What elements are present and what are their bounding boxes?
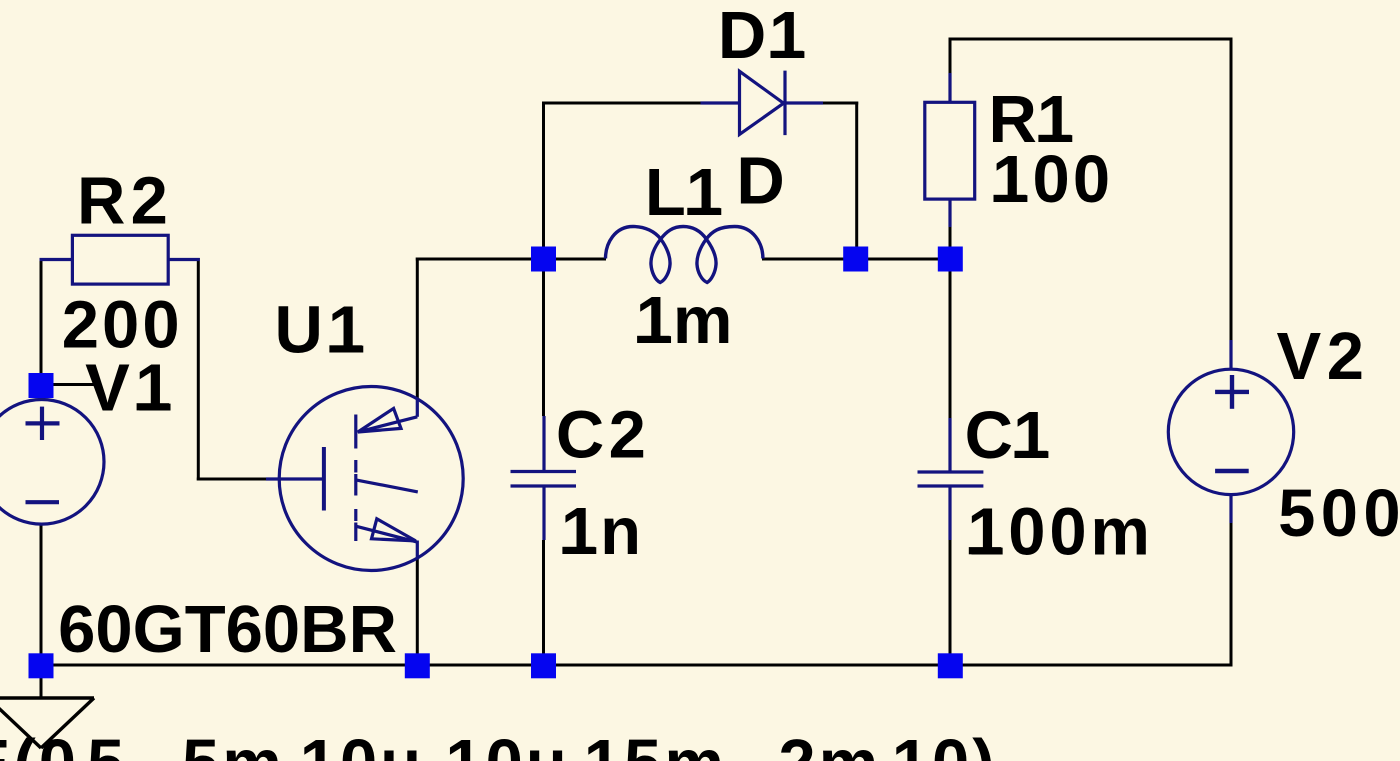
svg-text:C1: C1 (965, 398, 1051, 473)
capacitor C2 (511, 416, 577, 540)
wire C2 node up to D1 row (542, 102, 545, 261)
svg-text:100: 100 (992, 142, 1113, 217)
IGBT U1 (266, 387, 463, 571)
svg-text:500: 500 (1278, 476, 1400, 551)
wire R1 node down to C1 (949, 258, 952, 419)
R1 (994, 195, 1027, 202)
wire bottom rail y=665 (40, 664, 1233, 667)
svg-text:10): 10) (892, 726, 998, 761)
wire stub right of V1 node (41, 383, 96, 386)
node ground rail V1 (29, 653, 54, 678)
D1 (1038, 135, 1071, 142)
diode D1 (701, 71, 824, 136)
ground (0, 698, 94, 748)
voltage source V2 (1168, 340, 1293, 523)
svg-text:1m: 1m (636, 283, 733, 358)
1m (562, 547, 595, 554)
svg-text:5: 5 (87, 726, 127, 761)
1n (969, 547, 1002, 554)
wire R1 bottom to node (949, 227, 952, 261)
svg-text:100m: 100m (967, 494, 1153, 569)
wire L1 right lead to D node (762, 258, 857, 261)
wire collector row to C2 node (416, 258, 544, 261)
svg-text:10u: 10u (300, 726, 424, 761)
resistor R1 (925, 73, 975, 227)
wire D1 cathode to corner (823, 102, 858, 105)
svg-text:D1: D1 (718, 0, 809, 73)
node L1 right / D1 (843, 247, 868, 272)
voltage source V1 (0, 400, 104, 525)
wire right vertical x=1231 down to V2 top (1230, 38, 1233, 371)
svg-text:2m: 2m (778, 726, 881, 761)
100 (637, 336, 670, 343)
svg-text:L1: L1 (645, 155, 723, 230)
L1 (771, 51, 804, 58)
node L1 left / C2 (531, 247, 556, 272)
wire C2 bottom to rail (542, 540, 545, 667)
U1 (687, 208, 720, 215)
svg-text:R2: R2 (77, 164, 173, 239)
svg-text:1n: 1n (561, 494, 643, 569)
svg-text:PULSE(0: PULSE(0 (0, 726, 79, 761)
wire R1 top (949, 38, 952, 75)
svg-text:10u: 10u (445, 726, 569, 761)
svg-text:V2: V2 (1277, 319, 1370, 394)
wire L1 left lead (542, 258, 606, 261)
wire U1 collector up (416, 258, 419, 400)
svg-text:15m: 15m (584, 726, 727, 761)
node R1 / C1 top (938, 247, 963, 272)
svg-text:60GT60BR: 60GT60BR (58, 592, 397, 667)
wire D1 row left (542, 102, 701, 105)
wire U1 emitter down to rail (416, 558, 419, 665)
wire gate horizontal into U1 (197, 478, 266, 481)
capacitor C1 (918, 418, 984, 540)
inductor L1 (606, 227, 763, 283)
svg-text:C2: C2 (556, 397, 650, 472)
wire D1 corner down to node (855, 102, 858, 261)
svg-text:V1: V1 (85, 350, 178, 425)
svg-text:U1: U1 (275, 293, 371, 368)
wire D node to R1 node (855, 258, 951, 261)
V1 (329, 345, 362, 352)
wire gate vertical x=198.3 (197, 258, 200, 481)
svg-text:D: D (736, 144, 784, 219)
wire V2 bottom to bottom rail (1230, 523, 1233, 667)
wire V1 top: junction to circle (40, 258, 43, 400)
wire C1 bottom to rail (949, 540, 952, 667)
node rail C2 (531, 653, 556, 678)
wire V1 bottom to ground (40, 524, 43, 698)
svg-text:5m: 5m (182, 726, 285, 761)
wire top rail y=39 from R1 top to V2 branch (950, 38, 1233, 41)
100m (1015, 451, 1048, 458)
resistor R2 (40, 235, 200, 284)
wire C2 node down (542, 258, 545, 417)
node rail U1 emitter (405, 653, 430, 678)
serif foot for digit 1 glyphs (137, 403, 170, 410)
node V1-R2 (29, 373, 54, 398)
node rail C1 (938, 653, 963, 678)
